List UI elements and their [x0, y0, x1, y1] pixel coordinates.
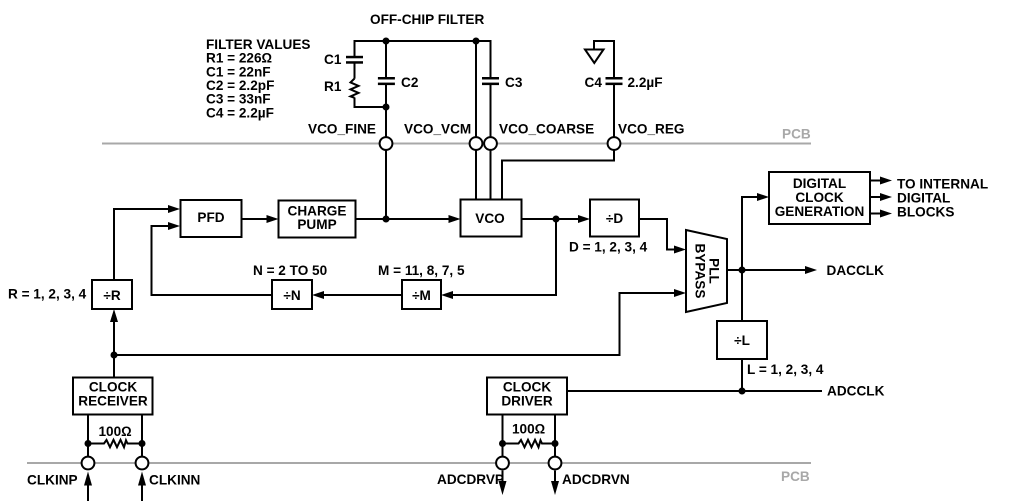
- arrow into N-divider: [312, 291, 324, 299]
- svg-text:÷M: ÷M: [412, 288, 431, 303]
- svg-text:÷D: ÷D: [606, 211, 623, 226]
- node dot driver left: [499, 440, 506, 447]
- node dot C2 bottom: [383, 104, 390, 111]
- arrow DCG output 1: [880, 177, 892, 185]
- arrow DACCLK: [805, 266, 817, 274]
- svg-text:CLKINP: CLKINP: [27, 473, 78, 488]
- svg-text:PFD: PFD: [197, 210, 224, 225]
- arrow CLKINN: [138, 472, 146, 486]
- svg-text:VCO_COARSE: VCO_COARSE: [499, 122, 594, 137]
- wire PFD to charge pump: [242, 218, 268, 220]
- arrow ADCDRVN: [551, 481, 559, 495]
- wire DCG output 2: [870, 196, 882, 198]
- pad VCO_FINE: [380, 137, 393, 150]
- svg-text:PCB: PCB: [782, 127, 811, 142]
- pad CLKINP: [82, 457, 95, 470]
- wire C4 bottom to VCO_REG pad: [613, 85, 615, 138]
- wire DCG output 1: [870, 180, 882, 182]
- wire to digital clock generation: [742, 197, 759, 270]
- wire DCG output 3: [870, 213, 882, 215]
- svg-text:100Ω: 100Ω: [512, 422, 546, 437]
- svg-text:÷L: ÷L: [734, 333, 750, 348]
- svg-text:DIGITAL: DIGITAL: [793, 176, 846, 191]
- arrow into bypass lower input: [674, 289, 686, 297]
- block divider R: [92, 280, 132, 309]
- svg-text:VCO_VCM: VCO_VCM: [404, 122, 471, 137]
- svg-text:R1: R1: [324, 79, 342, 94]
- pad VCO_COARSE: [484, 137, 497, 150]
- wire bypass output to L-divider: [741, 270, 743, 321]
- pad VCO_REG: [608, 137, 621, 150]
- wire receiver left leg: [87, 415, 89, 458]
- arrow DCG output 3: [880, 210, 892, 218]
- block divider L: [717, 321, 767, 359]
- arrow into digital clock generation: [757, 193, 769, 201]
- capacitor C3: [482, 77, 499, 85]
- wire L-divider to ADCCLK rail: [741, 359, 743, 391]
- wire driver left leg: [502, 415, 504, 458]
- arrow DCG output 2: [880, 193, 892, 201]
- wire VCO_REG pad to VCO: [502, 151, 614, 200]
- svg-text:DRIVER: DRIVER: [501, 393, 553, 408]
- ground symbol: [585, 50, 604, 64]
- arrow into M-divider: [441, 291, 453, 299]
- node dot driver right: [552, 440, 559, 447]
- svg-text:ADCDRVP: ADCDRVP: [437, 472, 504, 487]
- svg-text:N = 2 TO 50: N = 2 TO 50: [253, 263, 327, 278]
- wire receiver right leg: [141, 415, 143, 458]
- svg-text:VCO_FINE: VCO_FINE: [308, 122, 376, 137]
- svg-text:L = 1, 2, 3, 4: L = 1, 2, 3, 4: [747, 362, 824, 377]
- svg-text:100Ω: 100Ω: [99, 424, 133, 439]
- svg-text:CLKINN: CLKINN: [149, 473, 200, 488]
- block clock receiver: [73, 378, 153, 415]
- svg-text:2.2µF: 2.2µF: [628, 75, 663, 90]
- label digital clock generation: [775, 176, 865, 219]
- filter values note: [206, 37, 310, 120]
- svg-text:C4: C4: [585, 75, 603, 90]
- svg-text:VCO: VCO: [475, 211, 504, 226]
- svg-text:R = 1, 2, 3, 4: R = 1, 2, 3, 4: [8, 287, 87, 302]
- svg-text:RECEIVER: RECEIVER: [78, 393, 148, 408]
- block divider D: [590, 200, 639, 237]
- pad ADCDRVP: [496, 457, 509, 470]
- wire bypass lower input: [114, 293, 676, 355]
- svg-text:TO INTERNAL: TO INTERNAL: [897, 177, 988, 192]
- svg-text:PCB: PCB: [781, 469, 810, 484]
- node dot ADCCLK: [739, 388, 746, 395]
- wire C4 top to ground stub: [594, 41, 614, 77]
- node dot receiver left: [85, 440, 92, 447]
- wire R-divider to PFD input: [114, 209, 170, 280]
- svg-text:C2: C2: [401, 75, 419, 90]
- wire DACCLK: [742, 269, 807, 271]
- wire R1 bottom jumper: [355, 98, 387, 108]
- svg-text:M = 11, 8, 7, 5: M = 11, 8, 7, 5: [378, 263, 465, 278]
- wire C3 branch top: [490, 40, 492, 77]
- wire C2 bottom to VCO_FINE pad: [385, 85, 387, 138]
- svg-text:BLOCKS: BLOCKS: [897, 205, 954, 220]
- arrow into charge pump: [267, 215, 279, 223]
- wire ADCDRVN stub: [554, 471, 556, 484]
- resistor 100 ohm driver: [503, 440, 556, 447]
- PCB line top: [102, 143, 811, 145]
- PCB line bottom: [27, 462, 811, 464]
- mux PLL BYPASS: [686, 230, 727, 312]
- label charge pump: [288, 203, 347, 232]
- capacitor C2: [378, 77, 395, 85]
- svg-text:÷N: ÷N: [283, 288, 300, 303]
- wire VCO output to M-divider: [451, 219, 556, 295]
- svg-text:OFF-CHIP FILTER: OFF-CHIP FILTER: [370, 12, 484, 27]
- node dot bypass output: [739, 267, 746, 274]
- wire charge pump to VCO: [356, 218, 450, 220]
- svg-text:÷R: ÷R: [103, 288, 120, 303]
- wire driver right leg: [554, 415, 556, 458]
- node dot top rail left: [383, 38, 390, 45]
- node dot top rail right: [473, 38, 480, 45]
- arrow into bypass upper input: [674, 246, 686, 254]
- label clock driver: [501, 380, 553, 409]
- svg-text:DIGITAL: DIGITAL: [897, 191, 950, 206]
- svg-text:CLOCK: CLOCK: [89, 380, 138, 395]
- block charge pump: [279, 201, 356, 238]
- wire VCO_FINE pad to main rail: [385, 151, 387, 220]
- arrow into VCO: [449, 215, 461, 223]
- wire VCO_VCM branch: [475, 41, 477, 137]
- block clock driver: [487, 378, 567, 415]
- block divider M: [402, 280, 441, 309]
- node dot receiver right: [139, 440, 146, 447]
- wire VCO to D-divider: [522, 218, 580, 220]
- svg-text:C4 = 2.2µF: C4 = 2.2µF: [206, 105, 274, 120]
- svg-text:C3: C3: [505, 75, 523, 90]
- arrow into PFD bottom input: [168, 222, 180, 230]
- svg-text:PUMP: PUMP: [297, 217, 336, 232]
- pad CLKINN: [136, 457, 149, 470]
- wire C1 branch top: [354, 40, 356, 56]
- svg-text:GENERATION: GENERATION: [775, 204, 865, 219]
- wire M-divider to N-divider: [322, 294, 402, 296]
- capacitor C1: [346, 56, 363, 64]
- label clock receiver: [78, 380, 148, 409]
- arrow CLKINP: [84, 472, 92, 486]
- pad ADCDRVN: [549, 457, 562, 470]
- arrow into R-divider: [110, 309, 118, 322]
- wire C1 to R1: [354, 63, 356, 78]
- svg-text:CLOCK: CLOCK: [503, 380, 552, 395]
- wire ADCDRVP stub: [502, 471, 504, 484]
- resistor 100 ohm receiver: [88, 440, 142, 447]
- wire VCO_VCM pad to VCO: [475, 151, 477, 200]
- wire C3 bottom to VCO_COARSE pad: [490, 85, 492, 138]
- svg-text:VCO_REG: VCO_REG: [618, 122, 684, 137]
- wire bypass output: [727, 269, 742, 271]
- arrow ADCDRVP: [499, 481, 507, 495]
- wire VCO_COARSE pad to VCO: [490, 151, 492, 200]
- wire C2 branch top: [385, 41, 387, 77]
- capacitor C4: [606, 77, 623, 85]
- svg-text:D = 1, 2, 3, 4: D = 1, 2, 3, 4: [569, 240, 648, 255]
- svg-text:C1: C1: [324, 52, 342, 67]
- block PFD: [181, 200, 242, 237]
- arrow into D-divider: [578, 215, 590, 223]
- svg-text:ADCCLK: ADCCLK: [827, 383, 885, 398]
- arrow into PFD top input: [168, 205, 180, 213]
- wire N-divider to PFD input: [152, 226, 273, 295]
- wire CLKINP stub: [87, 484, 89, 501]
- svg-text:DACCLK: DACCLK: [827, 263, 885, 278]
- svg-text:ADCDRVN: ADCDRVN: [562, 472, 630, 487]
- block digital clock generation: [769, 172, 870, 224]
- wire filter top rail: [354, 40, 491, 42]
- wire D-divider to bypass: [639, 219, 676, 250]
- wire ADCCLK rail: [567, 390, 822, 392]
- node dot receiver branch: [111, 352, 118, 359]
- svg-text:CLOCK: CLOCK: [795, 190, 844, 205]
- node dot main rail VCO_FINE: [383, 216, 390, 223]
- pad VCO_VCM: [470, 137, 483, 150]
- block divider N: [272, 280, 312, 309]
- node dot VCO output: [553, 216, 560, 223]
- resistor R1: [351, 79, 359, 98]
- block VCO: [461, 200, 522, 237]
- label to internal digital blocks: [897, 177, 988, 220]
- wire clock receiver to R-divider: [113, 319, 115, 378]
- wire CLKINN stub: [141, 484, 143, 501]
